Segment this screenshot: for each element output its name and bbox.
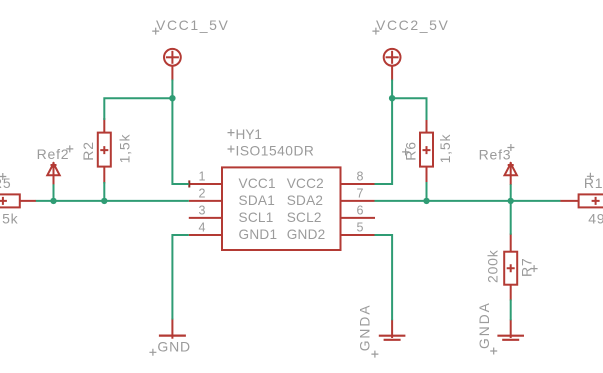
- pin 4 (GND1): [189, 221, 222, 235]
- pin 1 (VCC1): [189, 170, 222, 184]
- svg-text:HY1: HY1: [236, 127, 262, 142]
- svg-text:2: 2: [199, 187, 206, 201]
- net label GNDA (right): [477, 301, 497, 354]
- wire R2 bottom to SDA1 net: [103, 182, 105, 201]
- pin 1 wire-end tick: [188, 180, 190, 187]
- svg-text:SCL2: SCL2: [287, 210, 322, 225]
- wire SDA2 net to R7 top: [510, 201, 512, 235]
- resistor R7: [504, 234, 517, 301]
- svg-text:Ref2: Ref2: [37, 146, 70, 162]
- ground symbol GND: [159, 319, 186, 339]
- svg-text:7: 7: [357, 187, 364, 201]
- svg-text:R5: R5: [0, 175, 12, 191]
- wire SDA2 net (right horizontal): [375, 200, 561, 202]
- resistor R5 (partially visible, left edge): [0, 194, 36, 207]
- resistor R6: [420, 118, 433, 184]
- svg-text:R2: R2: [80, 141, 96, 161]
- svg-text:1,5k: 1,5k: [0, 210, 19, 226]
- wire pin 4 to GND: [172, 235, 188, 320]
- svg-text:5: 5: [357, 221, 364, 235]
- net label VCC1_5V: [152, 17, 229, 34]
- wire VCC1 junction to R2 top: [104, 98, 172, 120]
- label R1: [584, 173, 603, 191]
- wire R7 bottom to GNDA: [510, 300, 512, 321]
- pin 2 (SDA1): [189, 187, 222, 201]
- wire VCC2 junction to R6 top: [392, 98, 426, 120]
- supply symbol Ref2: [47, 162, 59, 185]
- svg-text:VCC1: VCC1: [239, 176, 276, 191]
- svg-text:200k: 200k: [485, 249, 501, 283]
- resistor R2: [98, 118, 111, 184]
- net label GND: [149, 339, 191, 356]
- wire Ref3 to SDA2 net: [510, 184, 512, 201]
- svg-text:GNDA: GNDA: [477, 301, 492, 349]
- net label Ref2: [37, 145, 74, 162]
- svg-text:499: 499: [588, 210, 603, 226]
- junction R6 / SDA2 net: [423, 198, 429, 204]
- wire VCC1 vertical to pin 1: [172, 80, 188, 185]
- svg-text:1,5k: 1,5k: [117, 134, 133, 164]
- svg-text:ISO1540DR: ISO1540DR: [236, 143, 315, 158]
- svg-text:VCC1_5V: VCC1_5V: [156, 17, 229, 33]
- wire SDA1 net (left horizontal): [36, 200, 189, 202]
- junction R2 / SDA1 net: [101, 198, 107, 204]
- svg-text:R7: R7: [519, 258, 535, 278]
- svg-text:SDA1: SDA1: [239, 193, 276, 208]
- wire Ref2 to SDA1 net: [53, 184, 55, 201]
- IC HY1 ISO1540DR body: [222, 167, 341, 250]
- junction Ref2 / SDA1 net: [50, 198, 56, 204]
- svg-text:GND1: GND1: [239, 227, 278, 242]
- svg-text:GNDA: GNDA: [358, 303, 373, 351]
- svg-text:4: 4: [199, 221, 206, 235]
- pin 8 (VCC2): [341, 170, 375, 184]
- net label VCC2_5V: [372, 17, 449, 34]
- svg-text:1,5k: 1,5k: [437, 134, 453, 164]
- svg-text:SDA2: SDA2: [287, 193, 324, 208]
- svg-text:SCL1: SCL1: [239, 210, 274, 225]
- svg-text:R6: R6: [402, 141, 418, 161]
- junction Ref3 / SDA2 net: [508, 198, 514, 204]
- svg-text:VCC2_5V: VCC2_5V: [376, 17, 449, 33]
- label R7: [519, 258, 538, 278]
- junction VCC2: [389, 95, 395, 101]
- net label Ref3: [479, 144, 515, 163]
- pin 6 (SCL2): [341, 204, 376, 218]
- supply symbol Ref3: [505, 162, 517, 185]
- wire VCC2 vertical to pin 8: [375, 80, 393, 185]
- label R2: [80, 141, 96, 161]
- svg-text:1: 1: [199, 170, 206, 184]
- wire pin 5 to GNDA: [375, 235, 393, 320]
- svg-text:Ref3: Ref3: [479, 147, 512, 163]
- svg-text:6: 6: [357, 204, 364, 218]
- label HY1: [228, 127, 262, 142]
- svg-text:GND2: GND2: [287, 227, 326, 242]
- svg-text:R1: R1: [584, 175, 603, 191]
- resistor R1 (partially visible, right edge): [560, 194, 603, 207]
- wire R6 bottom to SDA2 net: [426, 182, 428, 201]
- label ISO1540DR: [228, 143, 315, 158]
- junction VCC1: [169, 95, 175, 101]
- label R6: [402, 141, 418, 161]
- ground symbol GNDA (left): [379, 320, 406, 340]
- power symbol VCC1_5V: [164, 49, 181, 81]
- pin 5 (GND2): [341, 221, 375, 235]
- pin 7 (SDA2): [341, 187, 375, 201]
- svg-text:VCC2: VCC2: [287, 176, 324, 191]
- ground symbol GNDA (right): [497, 320, 524, 340]
- power symbol VCC2_5V: [384, 49, 401, 81]
- pin 3 (SCL1): [189, 204, 222, 218]
- label R5 (clipped): [0, 173, 12, 191]
- svg-text:GND: GND: [157, 339, 191, 355]
- svg-text:3: 3: [199, 204, 206, 218]
- net label GNDA (left): [358, 303, 379, 357]
- svg-text:8: 8: [357, 170, 364, 184]
